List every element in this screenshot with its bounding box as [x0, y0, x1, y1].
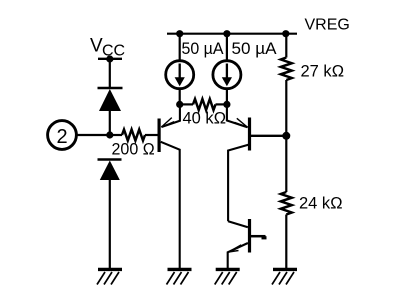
ground (divider bottom) [272, 269, 297, 284]
Q2 emitter arrow [235, 118, 248, 127]
diode D2 [98, 160, 122, 181]
Q1 emitter wire from node A [162, 104, 180, 127]
junction dot node 2 [106, 131, 113, 138]
resistor R4 24kΩ [281, 192, 292, 215]
wire D2 to ground [109, 179, 111, 268]
transistor Q1 (PNP, left) [158, 104, 180, 268]
wire node 2 to junction [77, 134, 111, 136]
top rail wire (VREG) [167, 33, 297, 35]
Q3 base stub end dot [262, 236, 267, 239]
svg-text:2: 2 [57, 126, 68, 148]
resistor R1 200Ω [110, 130, 158, 141]
Q1 collector wire to ground [161, 142, 180, 268]
wire 24k to ground [285, 215, 287, 269]
transistor Q3 (NPN, bottom) [228, 219, 267, 268]
Q2 emitter wire from node B [227, 104, 248, 127]
node 2 terminal circle [48, 121, 77, 150]
svg-text:VREG: VREG [305, 17, 350, 34]
VCC label [90, 36, 125, 60]
svg-text:50 µA: 50 µA [182, 40, 224, 58]
junction dot rail right [282, 30, 289, 37]
Q2 base wire to divider [251, 135, 286, 137]
Q3 emitter wire to ground [228, 243, 248, 268]
svg-text:40 kΩ: 40 kΩ [183, 110, 227, 128]
current source I1 50µA [166, 61, 194, 89]
Q3 base stub [251, 235, 266, 238]
wire I2 to node B [226, 89, 228, 104]
junction dot rail left [176, 30, 183, 37]
node B junction dot [223, 101, 230, 108]
Q3 collector wire from Q2 [228, 221, 248, 227]
Q2 base bar [248, 118, 251, 151]
ground (left diode chain) [97, 269, 122, 284]
Q3 emitter arrow [228, 245, 241, 252]
junction dot rail middle [223, 30, 230, 37]
wire VCC to D1 [109, 59, 111, 88]
svg-text:24 kΩ: 24 kΩ [299, 195, 343, 213]
ground (Q3 emitter) [215, 269, 240, 284]
wire D1 to node [109, 110, 111, 135]
svg-text:27 kΩ: 27 kΩ [301, 63, 345, 81]
Q3 base bar [248, 219, 251, 253]
Q2 collector wire down [228, 145, 248, 221]
wire rail to current source I2 [226, 34, 228, 61]
junction dot Q2 base / divider [282, 132, 290, 140]
wire I1 to node A [179, 89, 181, 104]
node A junction dot [176, 101, 183, 108]
junction dot at VCC [106, 55, 113, 62]
diode D1 [98, 88, 123, 111]
current source I2 50µA [213, 61, 241, 89]
ground (Q1 collector) [167, 269, 192, 284]
wire rail to 27k [285, 34, 287, 58]
VCC terminal bar [98, 58, 122, 60]
svg-text:200 Ω: 200 Ω [112, 141, 156, 159]
wire 27k to junction [285, 80, 287, 192]
resistor R3 27kΩ [281, 58, 292, 81]
transistor Q2 (PNP, right) [227, 104, 286, 221]
svg-text:CC: CC [102, 43, 125, 60]
wire rail to current source I1 [179, 34, 181, 61]
resistor R2 40kΩ [180, 99, 227, 110]
Q1 emitter arrow [161, 118, 174, 128]
svg-text:50 µA: 50 µA [232, 40, 277, 58]
Q1 base bar [158, 119, 161, 153]
